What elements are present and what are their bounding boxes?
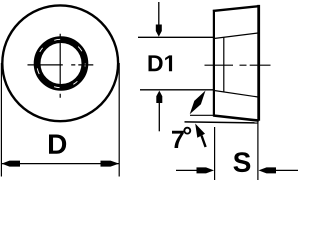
- 7deg angle arrow upper: [190, 91, 206, 115]
- hole near-edge vertical line (side view): [223, 38, 225, 93]
- D1 extension line bottom: [140, 89, 215, 91]
- label D1: [148, 55, 172, 71]
- label D: [49, 135, 66, 154]
- S arrow right: [259, 167, 299, 173]
- insert outer circle (front view): [2, 5, 118, 121]
- side view bottom edge: [213, 116, 258, 121]
- D1 extension line top: [138, 36, 215, 38]
- label 7deg: [172, 127, 191, 148]
- D arrowhead right: [101, 161, 120, 167]
- S arrow left: [176, 167, 214, 173]
- hole chamfer circle: [37, 40, 85, 88]
- side view top edge: [213, 6, 259, 11]
- D extension line left: [0, 63, 2, 177]
- label S: [233, 152, 250, 172]
- 7deg angled reference line: [185, 122, 258, 123]
- D arrowhead left: [2, 161, 20, 167]
- hole lower silhouette line (side view): [215, 91, 258, 97]
- 7deg angle arrow lower: [195, 124, 205, 148]
- hole bore circle: [37, 39, 85, 87]
- hole upper silhouette line (side view): [215, 33, 258, 38]
- D dimension line: [1, 163, 119, 165]
- horizontal center line (front view): [28, 64, 94, 66]
- side view left edge: [213, 10, 215, 117]
- side view right edge: [257, 5, 260, 121]
- S extension line right: [257, 121, 259, 180]
- D1 dimension arrow top: [156, 2, 162, 37]
- side view center line: [205, 64, 271, 66]
- D1 dimension arrow bottom: [156, 91, 162, 132]
- vertical center line (front view): [59, 34, 61, 98]
- S extension line left: [214, 127, 216, 180]
- D extension line right: [118, 63, 120, 177]
- 7deg horizontal reference line: [190, 114, 215, 116]
